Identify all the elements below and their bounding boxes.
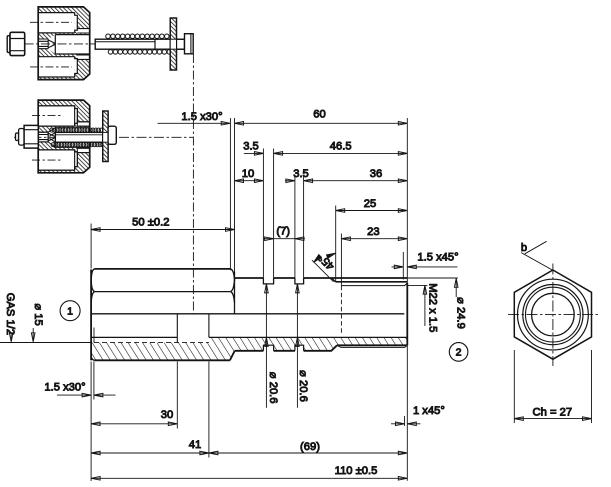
G thread depth step (176, 314, 178, 343)
valve body block (assembled, section) (38, 100, 90, 173)
dim 46.5 (274, 140, 408, 155)
M22 root extension (for label) (407, 285, 427, 287)
ext right chamfer 1.5x45 (402, 252, 404, 280)
screw head (assembled) (108, 126, 116, 144)
svg-text:1.5 x45°: 1.5 x45° (417, 251, 458, 263)
axis line of part (91, 313, 404, 315)
dim 25 (336, 198, 408, 213)
svg-text:1.5 x30°: 1.5 x30° (44, 382, 85, 394)
ext 41mm step (208, 362, 210, 458)
ext 30mm step (176, 362, 178, 429)
svg-text:46.5: 46.5 (330, 140, 352, 152)
svg-text:3.5: 3.5 (243, 140, 259, 152)
ext hex chamfer start (229, 118, 231, 270)
GAS 1/2 leader and label (4, 293, 16, 342)
dim 23 (341, 226, 407, 241)
ext hex face (234, 118, 236, 272)
hex nut (exploded) (7, 32, 25, 55)
b chamfer leader (521, 241, 553, 270)
hex end face (234, 272, 236, 314)
dim Ch=27 (514, 350, 591, 423)
dim 110 +-0.5 (91, 465, 407, 480)
lower outer profile: hex bottom, chamfers, collar, thread (94, 345, 407, 360)
flange plate (assembled) (103, 111, 108, 162)
ext right end (shared) (406, 118, 408, 481)
hex nut (assembled, on left) (16, 125, 39, 148)
svg-text:36: 36 (370, 168, 382, 180)
ext thread start (25) (335, 206, 337, 282)
ext groove1 edges (263, 149, 273, 278)
dim 1.5 x30 (top) (158, 111, 231, 125)
svg-text:23: 23 (367, 226, 379, 238)
groove 2 (lower notch) (295, 345, 304, 351)
svg-text:b: b (521, 242, 527, 254)
section hatch band (91, 338, 407, 361)
ext right chamfer 1x45 (404, 416, 406, 426)
svg-text:1: 1 (67, 306, 73, 318)
svg-text:41: 41 (189, 439, 201, 451)
bore centerlines (30, 22, 72, 67)
svg-text:(7): (7) (276, 226, 290, 238)
dia 24.9 leader and label (454, 278, 466, 329)
hex body top edge (95, 268, 231, 270)
svg-text:60: 60 (313, 108, 325, 120)
groove 1 (lower notch) (263, 345, 273, 351)
hex end chamfer arcs (right) (230, 269, 234, 303)
balloon 1 (60, 301, 80, 321)
svg-text:110 ±0.5: 110 ±0.5 (335, 465, 378, 477)
thread crest circle (523, 285, 583, 345)
dim 3.5 groove2 (285, 168, 309, 183)
svg-text:(69): (69) (300, 441, 320, 453)
collar top edge (dia 24.9) segments (235, 277, 408, 279)
part left end face (90, 270, 92, 361)
thread root circle (526, 287, 581, 342)
dim 10 (235, 168, 264, 183)
45deg chamfer callout (312, 252, 337, 282)
dim 1.5 x45 (right top) (392, 251, 459, 268)
dia 20.6 dimension line (groove 2) (296, 284, 309, 408)
dia 20.6 dimension line (groove 1) (265, 284, 280, 408)
svg-text:⌀ 20.6: ⌀ 20.6 (267, 372, 279, 404)
node: GAS thread reference line to left margin (0, 342, 91, 344)
M22 crest line (336, 281, 408, 283)
svg-text:3.5: 3.5 (293, 168, 309, 180)
svg-text:2: 2 (456, 347, 462, 359)
dim 50 +-0.2 (91, 217, 234, 232)
screw shaft (assembled) (50, 132, 109, 142)
hex bottom-left chamfer arc (91, 356, 94, 360)
svg-text:⌀ 15: ⌀ 15 (32, 303, 44, 325)
svg-text:GAS 1/2: GAS 1/2 (4, 293, 16, 335)
adjusting screw shaft (95, 39, 184, 49)
flange plate (section) (170, 18, 184, 70)
ext groove2 edges (295, 176, 304, 278)
svg-text:1 x45°: 1 x45° (413, 405, 445, 417)
valve body block (section) (38, 7, 90, 80)
hexagon (514, 270, 591, 359)
bore mouth chamfer edge (93, 328, 95, 343)
bore circle dia 15 (532, 293, 575, 336)
left end extensions (90, 224, 92, 482)
dim 30 (91, 409, 177, 426)
hex facet line (95, 291, 230, 293)
dia 15 leader and label (31, 303, 44, 341)
chamfer circle dia 24.9 (518, 279, 589, 350)
screw head (185, 34, 194, 54)
svg-text:⌀ 20.6: ⌀ 20.6 (297, 370, 309, 402)
dim 60 (235, 108, 408, 125)
svg-text:10: 10 (242, 168, 254, 180)
svg-text:1.5 x30°: 1.5 x30° (181, 111, 222, 123)
dim 3.5 groove1 (243, 140, 263, 155)
dim (69) (209, 441, 407, 455)
M22 root line + end chamfer (341, 283, 407, 286)
thread runout (hidden) (340, 286, 342, 333)
hex end chamfer arcs (left) (91, 269, 95, 304)
M22x1.5 leader and label (423, 283, 439, 332)
svg-text:Ch = 27: Ch = 27 (533, 407, 573, 419)
bore step (41) (208, 314, 210, 338)
dim (7) (264, 226, 305, 241)
svg-text:30: 30 (161, 409, 173, 421)
dim 36 (304, 168, 408, 183)
main axis centerline (top assembly) (8, 43, 188, 45)
svg-text:⌀ 24.9: ⌀ 24.9 (454, 297, 466, 329)
centerlines (508, 314, 599, 316)
lower section: thread minor line (left) + hatch top (right) (91, 336, 407, 338)
ext thread full (23) (340, 234, 342, 286)
axis centerline (assembled) (14, 136, 193, 138)
dim 1 x45 (bottom right) (391, 405, 445, 426)
ext left chamfer 1.5x30 bottom (93, 362, 95, 400)
spring (compressed) coils (0, 108, 599, 481)
svg-text:50 ±0.2: 50 ±0.2 (132, 217, 169, 229)
svg-text:M22 x 1.5: M22 x 1.5 (427, 283, 439, 332)
lower thread crest line with end chamfers (337, 345, 407, 347)
svg-text:25: 25 (364, 198, 376, 210)
dia 24.9 extension line beyond part (407, 277, 458, 279)
bore centerlines (assembled) (32, 116, 63, 161)
thread start chamfer 45deg (331, 278, 335, 282)
groove 2 (upper notch) (295, 278, 304, 284)
balloon 2 (449, 343, 468, 362)
right end face (406, 283, 408, 345)
G thread crest line (dashed) (94, 342, 209, 344)
dim 1.5 x30 (bottom left) (44, 382, 115, 397)
dim 41 (91, 439, 209, 455)
projection centerline down from screw head (192, 54, 194, 314)
groove 1 (upper notch) (263, 278, 273, 284)
